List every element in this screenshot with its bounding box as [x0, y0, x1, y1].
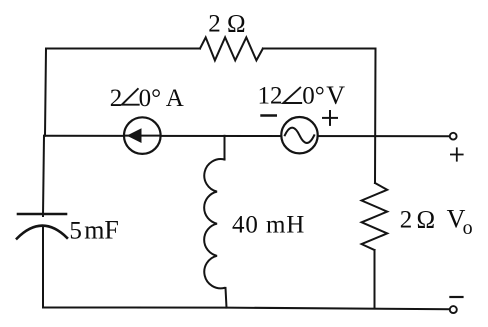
svg-text:V: V: [326, 81, 345, 110]
svg-text:Ω: Ω: [417, 206, 436, 233]
wire top left segment: [46, 48, 200, 50]
svg-text:5: 5: [69, 217, 82, 244]
resistor R top 2-ohm zigzag: [200, 37, 263, 60]
wire inductor top stem: [224, 136, 226, 160]
svg-text:mF: mF: [84, 215, 119, 244]
current source I1 circle: [124, 117, 161, 154]
wire left rail to capacitor: [43, 136, 44, 216]
wire top right segment: [263, 48, 376, 50]
output plus sign: [451, 154, 463, 156]
angle symbol in 2 angle 0 A label: [122, 89, 139, 105]
wire left rail upper: [45, 49, 46, 136]
wire bottom horizontal: [43, 308, 450, 310]
terminal node top output: [450, 133, 457, 140]
svg-text:40 mH: 40 mH: [232, 211, 305, 238]
output minus sign: [450, 296, 462, 298]
capacitor C curved plate: [17, 226, 67, 239]
wire left rail below capacitor: [42, 227, 44, 308]
svg-text:o: o: [463, 217, 473, 239]
svg-text:A: A: [166, 85, 184, 112]
svg-text:2: 2: [400, 206, 413, 233]
angle symbol in 12 angle 0 V label: [283, 88, 301, 103]
capacitor C top plate: [18, 213, 66, 216]
svg-text:2: 2: [110, 85, 123, 112]
voltage source V1 circle: [281, 117, 317, 153]
terminal node bottom output: [450, 306, 457, 313]
svg-text:2 Ω: 2 Ω: [208, 11, 245, 38]
wire right rail lower: [374, 250, 376, 309]
wire middle horizontal: [44, 135, 450, 137]
inductor L 40mH coil: [204, 159, 224, 288]
svg-text:12: 12: [258, 83, 283, 110]
wire inductor bottom stem: [226, 288, 227, 308]
current source I1 arrow: [126, 135, 160, 137]
voltage source plus sign: [323, 117, 337, 119]
voltage source V1 sine wave: [285, 128, 314, 143]
wire right rail upper: [374, 49, 377, 184]
resistor R2 2-ohm vertical zigzag: [362, 183, 388, 250]
svg-text:0°: 0°: [302, 83, 325, 110]
svg-text:0°: 0°: [139, 85, 162, 112]
voltage source minus sign: [262, 114, 276, 116]
